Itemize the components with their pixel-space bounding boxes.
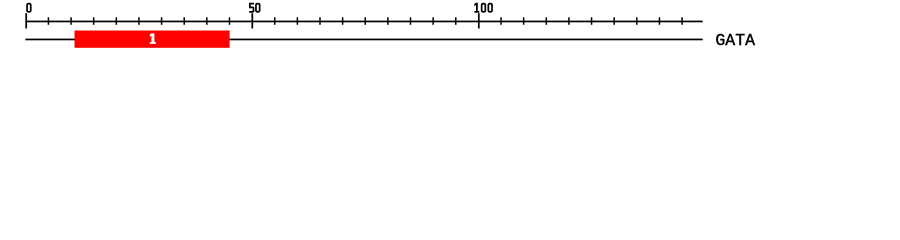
ruler minor tick 90 [432, 17, 434, 25]
ruler minor tick 120 [568, 17, 570, 25]
ruler minor tick 75 [365, 17, 367, 25]
ruler minor tick 40 [206, 17, 208, 25]
domain label 1 (white digit) [150, 33, 156, 44]
ruler minor tick 145 [681, 17, 683, 25]
background [0, 0, 900, 58]
ruler label 0 [26, 3, 31, 13]
ruler minor tick 140 [659, 17, 661, 25]
ruler minor tick 25 [138, 17, 140, 25]
ruler label 50 [249, 3, 254, 13]
ruler major tick 100 [478, 13, 480, 28]
ruler minor tick 30 [161, 17, 163, 25]
ruler minor tick 135 [636, 17, 638, 25]
ruler major tick 0 [25, 13, 27, 28]
sequence line GATA [25, 39, 702, 41]
ruler minor tick 15 [93, 17, 95, 25]
ruler minor tick 10 [70, 17, 72, 25]
domain box 1 (red) [75, 31, 230, 48]
ruler minor tick 60 [297, 17, 299, 25]
ruler minor tick 110 [523, 17, 525, 25]
ruler label 100 [474, 3, 479, 13]
ruler minor tick 95 [455, 17, 457, 25]
ruler minor tick 5 [48, 17, 50, 25]
ruler axis line 0-150 [25, 21, 702, 23]
ruler major tick 50 [251, 13, 253, 28]
ruler minor tick 105 [500, 17, 502, 25]
ruler minor tick 115 [546, 17, 548, 25]
svg-text:GATA: GATA [715, 31, 755, 50]
ruler minor tick 85 [410, 17, 412, 25]
ruler minor tick 70 [342, 17, 344, 25]
ruler minor tick 55 [274, 17, 276, 25]
ruler minor tick 125 [591, 17, 593, 25]
ruler minor tick 65 [319, 17, 321, 25]
ruler minor tick 80 [387, 17, 389, 25]
ruler minor tick 45 [229, 17, 231, 25]
ruler minor tick 130 [613, 17, 615, 25]
ruler minor tick 20 [116, 17, 118, 25]
ruler minor tick 35 [183, 17, 185, 25]
